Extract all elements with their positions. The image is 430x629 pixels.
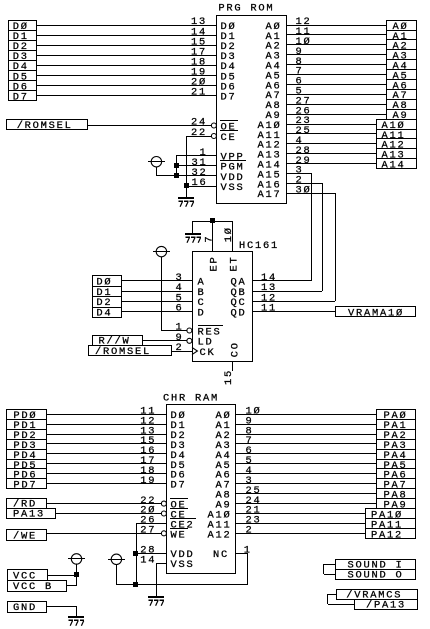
svg-text:HC161: HC161 [239,240,279,252]
svg-text:PA13: PA13 [13,509,45,521]
svg-text:CO: CO [230,341,242,357]
svg-text:D: D [198,307,206,319]
svg-text:14: 14 [140,554,156,566]
svg-text:QD: QD [231,307,247,319]
svg-text:22: 22 [191,127,207,139]
svg-text:CHR RAM: CHR RAM [163,393,219,405]
svg-text:NC: NC [213,549,229,561]
svg-text:D4: D4 [96,307,112,319]
svg-text:6: 6 [176,303,184,315]
svg-text:19: 19 [140,475,156,487]
svg-text:VCC B: VCC B [13,581,53,593]
svg-text:2: 2 [246,525,254,537]
svg-text:/PA13: /PA13 [366,600,406,612]
svg-text:PA12: PA12 [371,529,403,541]
svg-text:EP: EP [209,256,221,272]
svg-text:7: 7 [204,235,216,243]
svg-text:GND: GND [13,602,37,614]
svg-text:VRAMA1Ø: VRAMA1Ø [348,307,404,319]
svg-text:1Ø: 1Ø [223,226,235,242]
svg-text:1: 1 [244,544,252,556]
svg-text:21: 21 [191,87,207,99]
svg-text:PRG ROM: PRG ROM [218,2,274,14]
svg-text:/ROMSEL: /ROMSEL [17,120,73,132]
svg-text:D7: D7 [13,91,29,103]
svg-text:D7: D7 [221,91,237,103]
svg-text:VSS: VSS [221,182,245,194]
svg-text:/WE: /WE [13,530,37,542]
svg-text:A14: A14 [382,160,406,172]
svg-text:16: 16 [192,177,208,189]
svg-text:/ROMSEL: /ROMSEL [95,346,151,358]
svg-text:A17: A17 [258,189,282,201]
svg-text:2: 2 [176,342,184,354]
svg-text:WE: WE [171,529,187,541]
svg-text:D7: D7 [171,480,187,492]
svg-text:CK: CK [200,347,216,359]
svg-text:27: 27 [140,525,156,537]
svg-text:11: 11 [261,303,277,315]
svg-text:PD7: PD7 [13,480,37,492]
svg-text:CE: CE [221,132,237,144]
svg-text:ET: ET [229,256,241,272]
svg-text:SOUND O: SOUND O [348,570,404,582]
svg-text:A12: A12 [208,529,232,541]
svg-text:3Ø: 3Ø [296,185,312,197]
svg-text:VSS: VSS [171,559,195,571]
svg-text:15: 15 [223,369,235,385]
